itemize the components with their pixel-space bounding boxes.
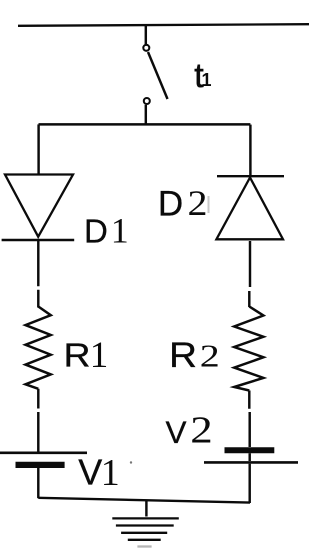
svg-text:2: 2 xyxy=(200,338,220,374)
wire right branch drop to D2 xyxy=(249,125,251,176)
battery V2 positive plate (long thin) xyxy=(204,461,298,464)
diode D1 triangle (anode top, pointing down) xyxy=(5,175,73,237)
switch t1 blade (open) xyxy=(148,52,168,99)
faint smudge right of D2 xyxy=(208,196,210,213)
svg-text:V: V xyxy=(166,414,187,450)
resistor R2 zigzag xyxy=(234,307,263,391)
diode D2 triangle (pointing up) xyxy=(216,178,283,240)
ground bar 2 xyxy=(116,524,174,526)
diode D1 cathode bar xyxy=(2,239,75,242)
wire V2 plate gap stub xyxy=(248,453,250,461)
svg-text:D: D xyxy=(84,212,108,249)
wire bottom bus xyxy=(38,498,250,503)
svg-text:2: 2 xyxy=(188,183,208,223)
battery V1 negative plate (short thick) xyxy=(16,462,65,468)
svg-text:D: D xyxy=(158,185,183,224)
wire R2 to V2 xyxy=(248,391,251,448)
wire V1 to bottom bus xyxy=(37,468,39,498)
svg-text:1: 1 xyxy=(202,70,212,90)
stray dot artifact near V1 xyxy=(130,461,132,463)
wire D1 to R1 xyxy=(37,241,39,308)
diode D2 cathode bar xyxy=(217,175,284,177)
resistor R1 zigzag xyxy=(26,307,51,389)
ground bar 3 xyxy=(121,532,167,534)
wire switch bottom stub xyxy=(145,105,147,125)
wire top rail xyxy=(18,24,309,26)
svg-text:2: 2 xyxy=(190,410,213,452)
wire left branch drop to D1 xyxy=(37,124,39,174)
svg-text:1: 1 xyxy=(111,211,129,251)
switch t1 lower terminal circle xyxy=(144,98,150,104)
battery V2 negative plate (short thick) xyxy=(225,447,275,453)
battery V1 positive plate (long thin) xyxy=(0,451,87,454)
ground stub xyxy=(145,501,147,517)
svg-text:1: 1 xyxy=(101,452,120,494)
wire switch top stub xyxy=(145,25,147,44)
ground bar 1 xyxy=(112,517,179,519)
svg-text:1: 1 xyxy=(90,335,109,376)
wire horizontal bus below switch xyxy=(39,123,251,125)
ground bar 4 xyxy=(128,539,161,541)
wire V2 to bottom bus xyxy=(248,464,250,503)
svg-text:V: V xyxy=(78,452,102,493)
wire D2 to R2 xyxy=(248,241,251,307)
ground bar 5 (faint) xyxy=(137,545,151,547)
wire R1 to V1 xyxy=(37,389,39,452)
switch t1 upper terminal circle xyxy=(143,45,149,51)
svg-text:R: R xyxy=(169,336,197,375)
svg-text:R: R xyxy=(64,336,91,373)
